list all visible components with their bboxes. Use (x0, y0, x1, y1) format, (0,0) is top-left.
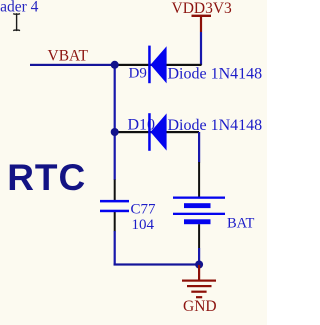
pin BAT bottom (black) (198, 224, 200, 248)
power port VDD3V3 stub (200, 15, 202, 32)
wire VBAT horizontal (30, 64, 116, 66)
battery BAT thick plate 1 (184, 203, 211, 208)
wire bottom horizontal to GND junction (114, 263, 201, 265)
wire D10 to battery (blue part) (198, 132, 200, 163)
power port VDD3V3 bar (192, 15, 212, 17)
wire VDD3V3 down to D9 (200, 32, 202, 65)
junction node VBAT/D9 (111, 61, 119, 69)
pin BAT top (black) (198, 162, 200, 198)
pin C77 top (black) (114, 180, 116, 201)
pin row D9 (black) (115, 64, 202, 66)
battery BAT long plate 2 (173, 213, 225, 215)
ground bar 4 (196, 296, 202, 298)
junction node GND rail (195, 261, 203, 269)
wire battery to GND junction (198, 248, 200, 265)
diode D9 triangle (151, 46, 167, 83)
svg-text:VDD3V3: VDD3V3 (172, 0, 233, 17)
svg-text:104: 104 (132, 217, 155, 233)
svg-text:Diode 1N4148: Diode 1N4148 (168, 117, 263, 134)
pin row D10 (black) (115, 131, 200, 133)
junction node D10/left column (111, 128, 119, 136)
text cursor I-beam (13, 14, 20, 31)
svg-text:D9: D9 (129, 66, 147, 82)
svg-text:RTC: RTC (7, 157, 86, 198)
svg-text:C77: C77 (131, 202, 157, 218)
ground stub (198, 265, 200, 280)
svg-text:D10: D10 (128, 117, 156, 134)
diode D10 triangle (151, 113, 167, 150)
svg-text:BAT: BAT (227, 216, 255, 232)
capacitor C77 plate bottom (100, 210, 129, 213)
svg-text:VBAT: VBAT (48, 48, 89, 65)
diode D10 cathode bar (148, 113, 151, 151)
ground bar 2 (187, 285, 212, 287)
diode D9 cathode bar (148, 46, 151, 84)
wire vertical left column (junction D9 to C77 top pin) (114, 64, 116, 180)
ground bar 3 (191, 291, 206, 293)
capacitor C77 plate top (100, 200, 129, 203)
svg-text:GND: GND (183, 298, 217, 315)
battery BAT long plate 1 (173, 197, 225, 199)
wire C77 bottom to GND rail (114, 231, 116, 266)
ground bar 1 (182, 280, 216, 282)
battery BAT thick plate 2 (184, 219, 211, 224)
svg-text:Diode 1N4148: Diode 1N4148 (168, 66, 263, 83)
pin C77 bottom (black) (114, 212, 116, 232)
